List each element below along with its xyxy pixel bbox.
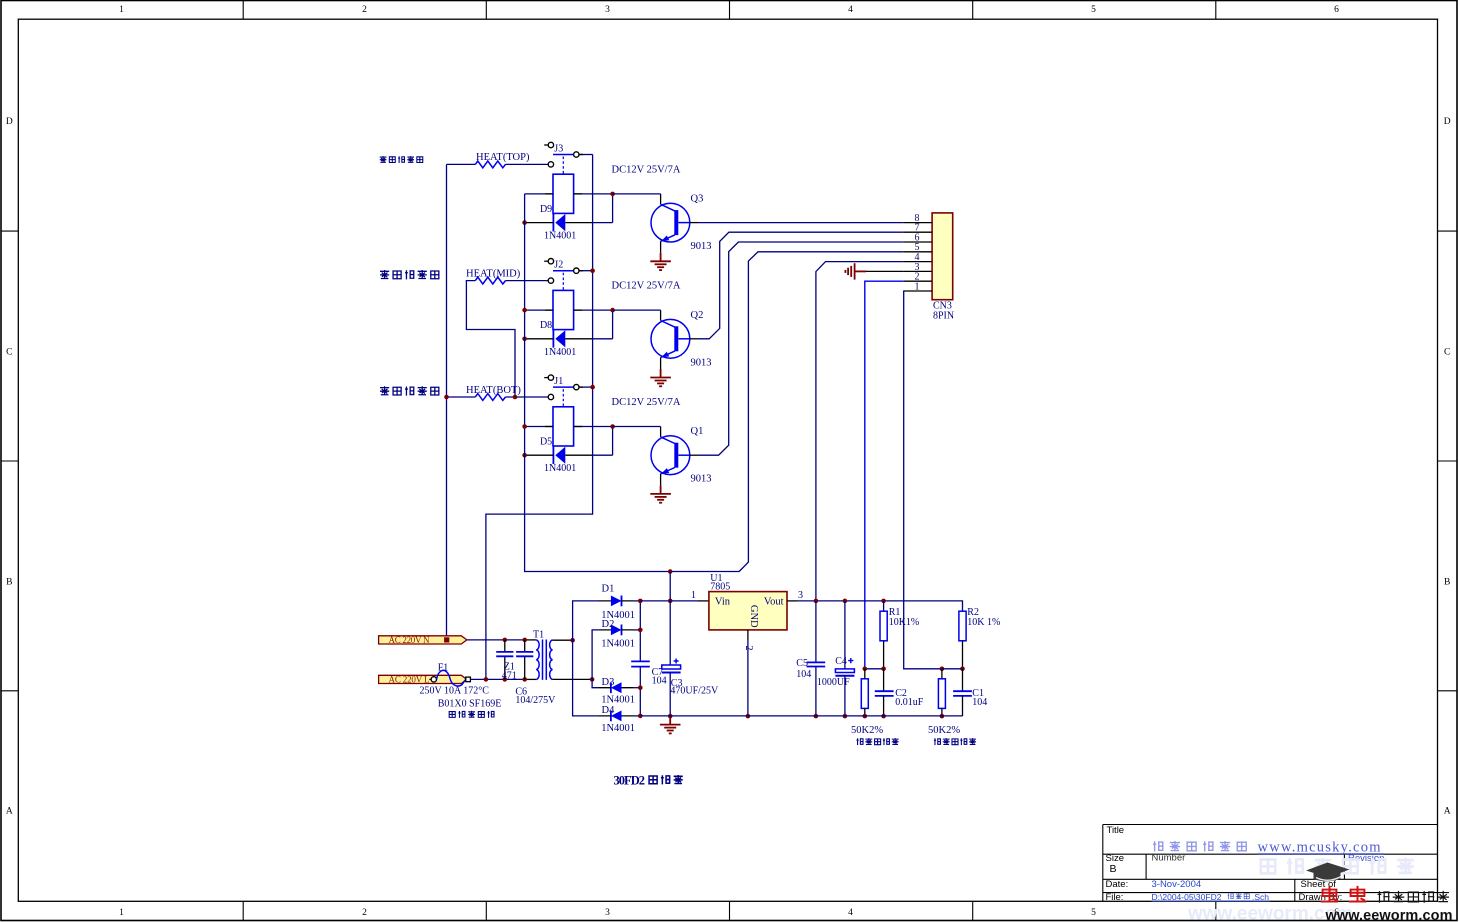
- port AC 220V N: [379, 636, 467, 644]
- svg-text:2: 2: [362, 908, 367, 918]
- junction Z1 top: [503, 638, 508, 643]
- svg-text:D8: D8: [540, 320, 552, 331]
- wire CN3 pin1 to bottom sensor node: [904, 291, 942, 669]
- connector CN3 8PIN: [932, 213, 953, 300]
- junction coil D5 row on +12V rail: [522, 424, 527, 429]
- capacitor C6 104/275V: [524, 640, 526, 680]
- wire +12V branch down through C3 to ground: [669, 572, 671, 601]
- svg-text:D: D: [6, 117, 13, 127]
- svg-text:1N4001: 1N4001: [601, 723, 635, 734]
- svg-text:3: 3: [798, 590, 803, 601]
- svg-text:D2: D2: [602, 619, 615, 630]
- ground at Q2 emitter: [650, 369, 671, 386]
- capacitor C5 104: [815, 601, 817, 663]
- svg-text:9013: 9013: [691, 357, 712, 368]
- wire Vout +5V row: [787, 600, 797, 602]
- svg-text:C: C: [6, 348, 12, 358]
- junction +12V rail / regulator input branch: [668, 569, 673, 574]
- wire F1 to L rail: [470, 678, 524, 680]
- diode D3 1N4001: [611, 682, 622, 693]
- svg-text:B01X0 SF169E: B01X0 SF169E: [438, 699, 502, 710]
- svg-text:1: 1: [119, 908, 124, 918]
- junction D2 cathode: [638, 628, 643, 633]
- svg-text:5: 5: [1091, 908, 1096, 918]
- CN3 pin 5: [904, 251, 932, 253]
- GND rail: [640, 715, 962, 717]
- wire diode anode up to collector node: [612, 427, 614, 456]
- thermistor RT bottom 50K2%: [941, 669, 943, 679]
- wire Q3 base to CN3 pin8: [690, 222, 698, 224]
- logo graduation cap: [1306, 863, 1350, 878]
- svg-text:470UF/25V: 470UF/25V: [670, 685, 719, 696]
- label 电源板: [649, 775, 683, 784]
- svg-text:104: 104: [652, 675, 667, 686]
- svg-text:10K1%: 10K1%: [889, 617, 920, 628]
- svg-text:Title: Title: [1107, 825, 1125, 836]
- svg-text:Q2: Q2: [691, 310, 704, 321]
- svg-text:AC 220V L: AC 220V L: [389, 675, 430, 685]
- svg-text:1N4001: 1N4001: [601, 638, 635, 649]
- diode D1 1N4001: [611, 596, 622, 607]
- wire Q3 emitter to ground: [660, 241, 662, 253]
- wire T1 secondary top to bridge: [553, 639, 573, 641]
- svg-text:B: B: [1444, 578, 1450, 588]
- resistor HEAT(BOT) heater element: [475, 394, 505, 401]
- junction coil / collector wire: [610, 308, 615, 313]
- wire diode anode up to collector node: [612, 310, 614, 339]
- svg-text:2: 2: [743, 646, 754, 651]
- relay contact J3: [548, 142, 579, 167]
- wire AC N to transformer: [467, 639, 525, 641]
- svg-text:D: D: [1444, 117, 1451, 127]
- thermistor RT lid 50K2%: [864, 669, 866, 679]
- wire HEAT(TOP) to relay contact: [506, 163, 549, 165]
- fuse F1 thermal: [429, 678, 431, 680]
- CN3 pin 7: [904, 231, 932, 233]
- diode D5 1N4001 flyback: [552, 446, 554, 464]
- capacitor C1 104: [962, 669, 964, 691]
- capacitor C4 1000UF polarized: [844, 601, 846, 669]
- frame row tick left/right 1: [1, 230, 1457, 232]
- junction D4 anode / GND rail: [638, 714, 643, 719]
- junction C5 / pin4 on +5V: [814, 599, 819, 604]
- svg-text:250V 10A 172°C: 250V 10A 172°C: [420, 686, 490, 697]
- wire HEAT(BOT) to relay contact: [506, 396, 549, 398]
- wire heater MID left down joining heater BOT row: [466, 281, 515, 397]
- junction U1 GND / rail: [746, 714, 751, 719]
- svg-text:1: 1: [691, 590, 696, 601]
- svg-text:10K 1%: 10K 1%: [967, 617, 1000, 628]
- svg-text:104: 104: [972, 697, 987, 708]
- junction C3 / GND rail: [668, 714, 673, 719]
- wire J3 common to AC L rail: [579, 154, 593, 156]
- transistor Q3 9013 NPN: [651, 203, 690, 242]
- node lid-sensor divider: [865, 668, 884, 670]
- svg-text:D1: D1: [602, 584, 615, 595]
- junction C6 top / T1 primary: [522, 638, 527, 643]
- port AC 220V L: [379, 675, 467, 683]
- junction heater BOT / N rail: [444, 395, 449, 400]
- CN3 pin 2: [904, 280, 932, 282]
- junction RT2 node: [940, 667, 945, 672]
- svg-text:9013: 9013: [691, 474, 712, 485]
- svg-text:2: 2: [362, 5, 367, 15]
- svg-text:4: 4: [848, 908, 853, 918]
- capacitor C7 104: [631, 661, 650, 666]
- svg-text:.Sch: .Sch: [1252, 892, 1269, 902]
- junction C6 bottom / T1 primary: [522, 677, 527, 682]
- label 锅身加热丝: [380, 270, 439, 279]
- wire T1 secondary bottom to bridge: [553, 678, 593, 680]
- relay contact J2: [548, 259, 579, 284]
- svg-text:Number: Number: [1152, 853, 1186, 864]
- svg-text:1N4001: 1N4001: [544, 231, 576, 242]
- svg-text:0.01uF: 0.01uF: [895, 697, 924, 708]
- diode D9 1N4001 flyback: [552, 214, 554, 232]
- svg-text:D9: D9: [540, 204, 552, 215]
- capacitor C3 470UF/25V polarized: [662, 665, 681, 669]
- junction C4 on +5V: [843, 599, 848, 604]
- U1 GND pin to rail: [747, 630, 749, 640]
- svg-text:1N4001: 1N4001: [544, 463, 576, 474]
- label 安装于锅底: [449, 711, 494, 718]
- svg-text:GND: GND: [748, 605, 759, 628]
- svg-text:Vin: Vin: [715, 597, 731, 608]
- wire +12V rail to coil D9: [525, 193, 553, 195]
- junction D1 cathode / Vin row: [638, 599, 643, 604]
- label 锅盖传感器: [856, 738, 898, 745]
- wire +12V rail to coil D8: [525, 309, 553, 311]
- svg-text:8PIN: 8PIN: [933, 311, 954, 322]
- svg-text:104/275V: 104/275V: [515, 695, 556, 706]
- wire heater BOT left to N rail: [447, 396, 476, 398]
- svg-text:J1: J1: [554, 376, 563, 387]
- svg-text:Q1: Q1: [691, 426, 704, 437]
- junction relay common rail / AC L: [484, 677, 489, 682]
- ground at GND rail: [660, 716, 681, 733]
- svg-text:HEAT(TOP): HEAT(TOP): [476, 152, 530, 163]
- wire coil D5 to collector node: [574, 426, 613, 428]
- wire D1/D4 outer loop: [573, 601, 599, 716]
- svg-text:C: C: [1444, 348, 1450, 358]
- resistor HEAT(MID) heater element: [475, 277, 505, 284]
- wire J2 common to AC L rail: [579, 270, 593, 272]
- relay contact J1: [548, 375, 579, 400]
- svg-text:www.mcusky.com: www.mcusky.com: [1258, 839, 1382, 855]
- junction J2 common on rail: [590, 268, 595, 273]
- svg-text:50K2%: 50K2%: [928, 725, 960, 736]
- wire Q2 base to CN3 pin7: [690, 338, 698, 340]
- wire Q1 emitter to ground: [660, 474, 662, 486]
- logo text dianzi xiazaizhan: [1378, 891, 1449, 903]
- wire collector node to Q2: [613, 309, 661, 311]
- pin square AC N / heater rail junction: [444, 637, 449, 642]
- junction D3 anode: [638, 685, 643, 690]
- ground at CN3 pin3: [866, 270, 904, 272]
- svg-text:A: A: [1444, 806, 1451, 816]
- svg-text:5: 5: [1091, 5, 1096, 15]
- wire D2/D3 loop: [592, 630, 599, 688]
- frame column tick top/bottom 3: [729, 1, 731, 921]
- logo chongchong red: [1321, 886, 1366, 902]
- varistor Z1 471: [504, 640, 506, 680]
- ground at Q1 emitter: [650, 485, 671, 502]
- regulator U1 7805: [709, 592, 787, 630]
- svg-text:1: 1: [119, 5, 124, 15]
- frame column tick top/bottom 1: [242, 1, 244, 921]
- svg-text:30FD2: 30FD2: [614, 773, 646, 787]
- svg-text:F1: F1: [438, 662, 449, 673]
- junction Vin row / C3 branch: [668, 599, 673, 604]
- wire heater TOP left rail down to AC 220V N: [447, 163, 476, 165]
- svg-text:DC12V 25V/7A: DC12V 25V/7A: [612, 165, 681, 176]
- svg-text:A: A: [6, 806, 13, 816]
- diode D2 1N4001: [611, 625, 622, 636]
- wire relay common rail down to AC 220V L: [486, 155, 593, 680]
- svg-text:T1: T1: [533, 629, 544, 640]
- CN3 pin 4: [904, 261, 932, 263]
- svg-text:D:\2004-05\30FD2: D:\2004-05\30FD2: [1152, 892, 1222, 902]
- watermark 开发天地出品: [1153, 841, 1246, 852]
- svg-text:AC 220V N: AC 220V N: [389, 635, 431, 645]
- resistor R2 10K1%: [959, 611, 966, 641]
- svg-text:1N4001: 1N4001: [601, 694, 635, 705]
- frame row tick left/right 3: [1, 690, 1457, 692]
- wire coil D9 to collector node: [574, 193, 613, 195]
- wire CN3 pin4 to +5V rail: [816, 262, 904, 601]
- wire coil D8 to collector node: [574, 309, 613, 311]
- svg-text:DC12V 25V/7A: DC12V 25V/7A: [612, 281, 681, 292]
- label 锅底加热丝: [380, 386, 439, 395]
- svg-text:DC12V 25V/7A: DC12V 25V/7A: [612, 397, 681, 408]
- wire Q1 base to CN3 pin6: [690, 454, 698, 456]
- svg-text:104: 104: [796, 669, 811, 680]
- diode D4 1N4001: [611, 711, 622, 722]
- CN3 pin 3: [904, 270, 932, 272]
- svg-text:1N4001: 1N4001: [544, 347, 576, 358]
- junction coil / collector wire: [610, 192, 615, 197]
- svg-text:4: 4: [848, 5, 853, 15]
- relay coil D8: [553, 290, 574, 329]
- svg-text:3: 3: [605, 5, 610, 15]
- svg-text:C4: C4: [835, 656, 847, 667]
- svg-text:D4: D4: [602, 705, 616, 716]
- resistor HEAT(TOP) heater element: [475, 161, 505, 168]
- CN3 pin 6: [904, 241, 932, 243]
- label 锅底传感器: [934, 738, 976, 745]
- wire collector node to Q3: [613, 193, 661, 195]
- svg-text:D3: D3: [602, 677, 615, 688]
- label 锅盖加热丝: [380, 156, 423, 163]
- junction +12V rail / diode cathode: [522, 337, 527, 342]
- junction T1 secondary top / D1-D4 rail: [570, 638, 575, 643]
- svg-text:3-Nov-2004: 3-Nov-2004: [1152, 879, 1202, 890]
- CN3 pin 8: [904, 222, 932, 224]
- ground at Q3 emitter: [650, 253, 671, 270]
- wire +12V rail to coil D5: [525, 426, 553, 428]
- svg-text:6: 6: [1334, 5, 1339, 15]
- junction coil D8 row on +12V rail: [522, 308, 527, 313]
- junction pin2 / RT1 / node: [863, 667, 868, 672]
- junction heater MID / heater BOT: [513, 395, 518, 400]
- junction Z1 bottom: [503, 677, 508, 682]
- wire CN3 pin2 to lid sensor node: [865, 281, 904, 669]
- svg-text:C5: C5: [796, 658, 808, 669]
- junction R1 on +5V: [881, 599, 886, 604]
- svg-text:Vout: Vout: [764, 597, 784, 608]
- wire +12V rail from relay coils down to bridge output: [525, 194, 904, 572]
- svg-text:Date:: Date:: [1106, 879, 1129, 890]
- frame column tick top/bottom 2: [485, 1, 487, 921]
- svg-text:9013: 9013: [691, 241, 712, 252]
- svg-text:Q3: Q3: [691, 194, 704, 205]
- transistor Q2 9013 NPN: [651, 319, 690, 358]
- svg-text:J2: J2: [554, 260, 563, 271]
- junction J1 common on rail: [590, 385, 595, 390]
- CN3 pin 1: [904, 290, 932, 292]
- diode D8 1N4001 flyback: [552, 330, 554, 348]
- svg-text:50K2%: 50K2%: [851, 725, 883, 736]
- wire Q2 emitter to ground: [660, 358, 662, 370]
- wire diode anode up to collector node: [612, 194, 614, 223]
- relay coil D5: [553, 407, 574, 446]
- svg-text:471: 471: [502, 671, 517, 682]
- frame row tick left/right 2: [1, 460, 1457, 462]
- frame column tick top/bottom 5: [1215, 1, 1217, 921]
- junction R1 / C2 node: [881, 667, 886, 672]
- svg-text:B: B: [6, 578, 12, 588]
- svg-text:3: 3: [605, 908, 610, 918]
- frame column tick top/bottom 4: [972, 1, 974, 921]
- transistor Q1 9013 NPN: [651, 436, 690, 475]
- watermark ghost chinese: [1261, 858, 1414, 875]
- svg-text:B: B: [1110, 863, 1117, 875]
- svg-text:HEAT(MID): HEAT(MID): [466, 268, 521, 279]
- junction R2 / C1 node: [960, 667, 965, 672]
- svg-text:File:: File:: [1106, 892, 1124, 903]
- relay coil D9: [553, 174, 574, 213]
- title block: [1103, 825, 1438, 902]
- junction coil / collector wire: [610, 424, 615, 429]
- wire Vin row: [640, 600, 698, 602]
- capacitor C2 0.01uF: [883, 669, 885, 691]
- junction +12V rail / diode cathode: [522, 220, 527, 225]
- wire bridge + rail vertical with C7: [639, 601, 641, 662]
- svg-text:www.eeworm.com: www.eeworm.com: [1325, 908, 1453, 922]
- svg-text:HEAT(BOT): HEAT(BOT): [466, 385, 521, 396]
- wire J1 common to AC L rail: [579, 386, 593, 388]
- wire collector node to Q1: [613, 426, 661, 428]
- svg-text:1: 1: [915, 281, 920, 292]
- junction +12V rail / diode cathode: [522, 453, 527, 458]
- junction T1 secondary bottom / D2-D3 rail: [590, 677, 595, 682]
- svg-text:7805: 7805: [710, 581, 730, 592]
- resistor R1 10K1%: [883, 601, 885, 611]
- wire HEAT(MID) to relay contact: [506, 280, 549, 282]
- svg-text:D5: D5: [540, 437, 552, 448]
- svg-text:J3: J3: [554, 144, 563, 155]
